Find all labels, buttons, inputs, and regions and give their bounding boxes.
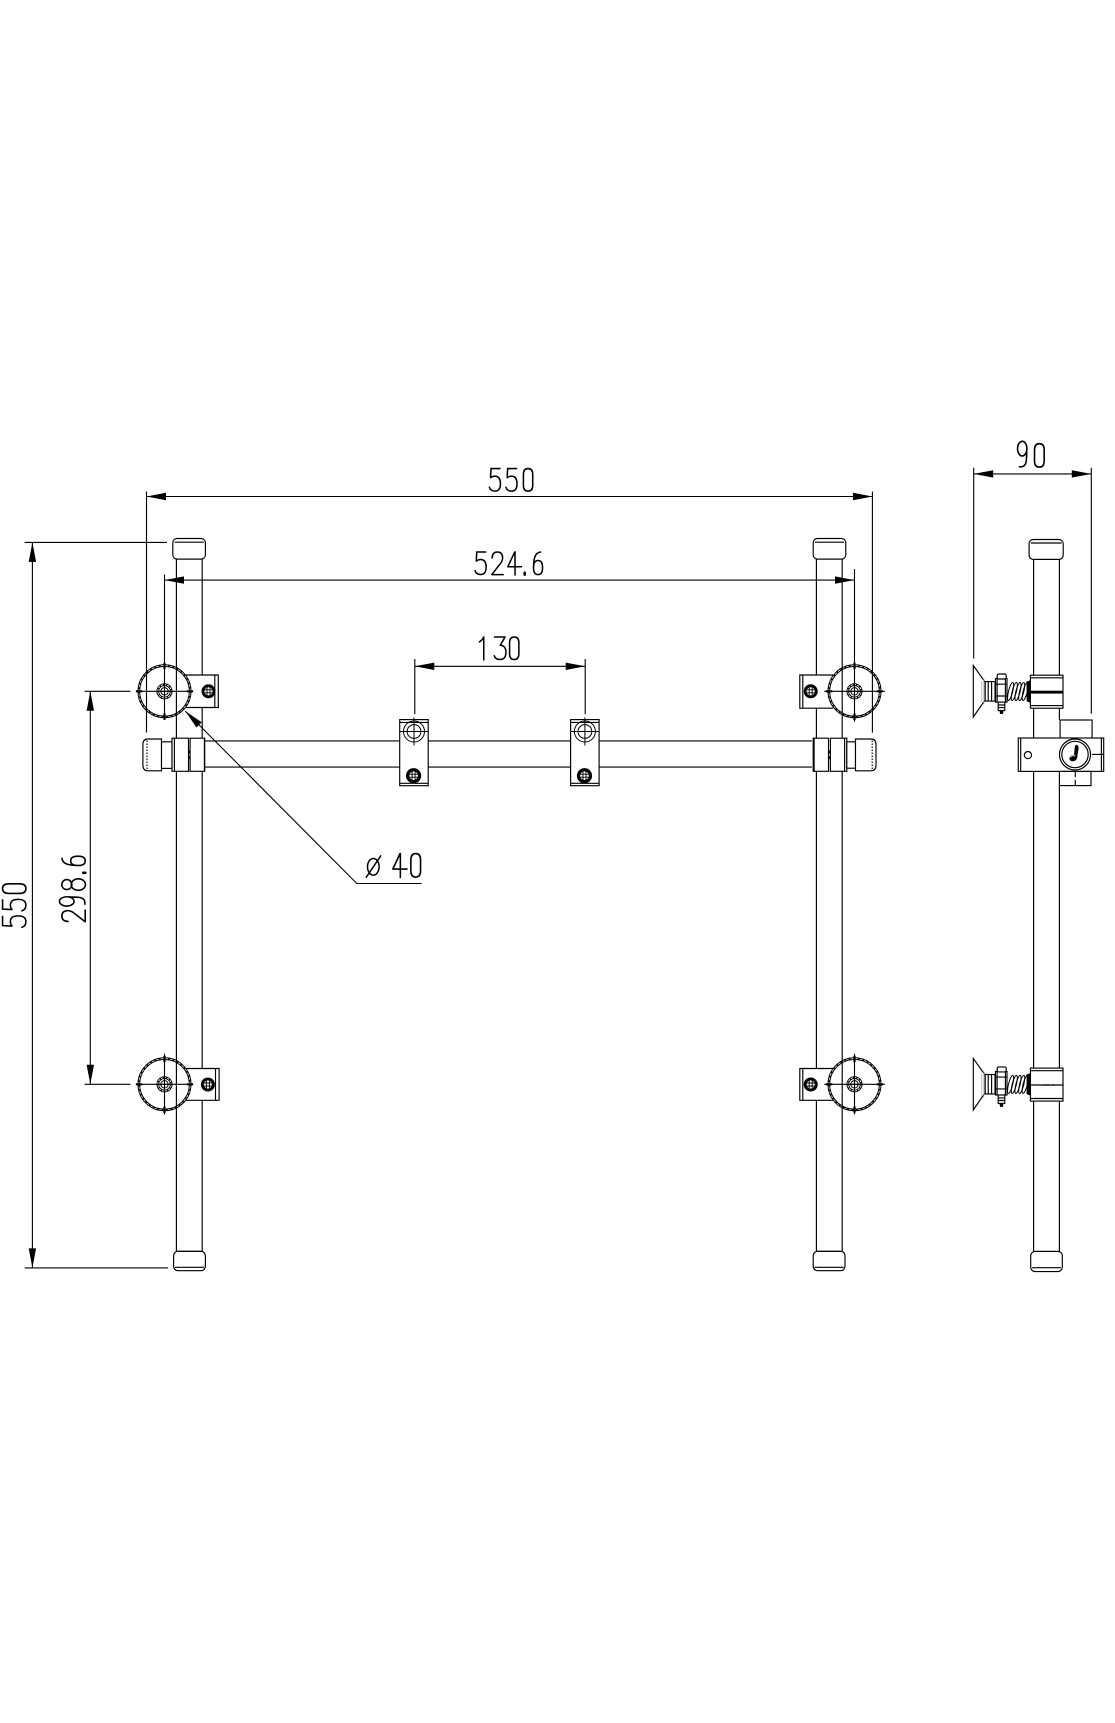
lower-left knob	[136, 1056, 193, 1113]
dimension 298.6: text	[60, 856, 86, 922]
upper-right bracket screw	[804, 684, 818, 698]
clamp block hole	[1024, 752, 1031, 759]
lower-right knob	[826, 1056, 883, 1113]
upper suction cup	[973, 666, 985, 718]
dimension 524.6: arrowheads	[165, 576, 855, 583]
dimension 90: arrowheads	[974, 470, 1092, 477]
leader line for diameter 40	[185, 711, 421, 883]
leader arrowhead	[183, 708, 202, 727]
lower-left bracket screw	[201, 1078, 215, 1092]
dimension 90: dimension line	[974, 473, 1092, 475]
horizontal tube right step	[847, 742, 856, 768]
horizontal tube right end cap	[856, 739, 877, 771]
clamp lever boss	[1060, 739, 1091, 770]
upper-left bracket screw	[202, 684, 216, 698]
upper tube sleeve	[1030, 675, 1063, 708]
upper-left bracket	[186, 675, 218, 708]
dimension 550 top: arrowheads	[147, 493, 873, 500]
horizontal tube left band 2	[190, 738, 205, 771]
upper spring	[1006, 682, 1029, 701]
dimension 550 left vertical: text	[3, 884, 26, 928]
dimension 130: text	[479, 637, 518, 660]
dimension 550 top: text	[489, 469, 532, 492]
clamp B top screw	[571, 718, 599, 746]
right tube top cap	[813, 539, 846, 560]
dimension 550 left vertical: extension lines	[25, 542, 168, 1268]
left tube bottom cap	[174, 1251, 206, 1270]
upper-left knob	[136, 663, 193, 720]
lower tube sleeve	[1030, 1068, 1063, 1101]
horizontal tube left band 1	[172, 738, 189, 771]
upper-left centerlines	[85, 575, 193, 720]
dimension 130: dimension line	[415, 665, 585, 667]
leader text 40	[393, 854, 421, 878]
dimension 130: extension lines	[415, 659, 585, 714]
tube clamp A	[400, 720, 429, 786]
horizontal tube left step	[162, 742, 173, 769]
dimension 130: arrowheads	[415, 663, 585, 670]
side view tube bottom cap	[1031, 1251, 1063, 1271]
lower-right bracket	[800, 1069, 833, 1101]
diameter symbol	[366, 856, 381, 877]
clamp block slot	[1092, 753, 1104, 755]
clamp A bottom screw	[406, 768, 421, 783]
dimension 550 left vertical: dimension line	[31, 542, 33, 1268]
right band joint line	[828, 751, 830, 760]
horizontal tube left end cap	[143, 739, 162, 771]
left band joint line	[188, 751, 190, 760]
side view tube body	[1034, 559, 1060, 1251]
tube clamp B	[571, 720, 600, 786]
upper stem washers	[985, 682, 995, 702]
lower-right bracket screw	[804, 1078, 818, 1092]
clamp block upper step	[1060, 720, 1092, 739]
lower cross block	[996, 1067, 1008, 1107]
dimension 550 top: dimension line	[147, 496, 873, 498]
left vertical tube body	[176, 559, 202, 1251]
lower spring	[1006, 1075, 1029, 1094]
dimension 90: extension lines	[974, 468, 1092, 714]
lower spring seat disc	[1027, 1073, 1031, 1096]
upper-right knob	[826, 663, 883, 720]
clamp block lower step	[1059, 771, 1091, 785]
right vertical tube body	[816, 559, 842, 1251]
clamp A top screw	[400, 718, 428, 746]
lower-right centerlines	[824, 1054, 885, 1115]
upper spring seat disc	[1027, 680, 1031, 703]
lower-left bracket	[185, 1069, 219, 1101]
dimension 524.6: dimension line	[165, 579, 855, 581]
left tube top cap	[173, 539, 206, 560]
clamp block body	[1018, 738, 1103, 771]
clamp lever handle	[1069, 745, 1078, 761]
dimension 298.6: dimension line	[89, 691, 91, 1084]
lower stem washers	[985, 1075, 995, 1095]
dimension 298.6: arrowheads	[87, 691, 94, 1084]
dimension 90: text	[1018, 441, 1045, 467]
horizontal tube right band 1	[813, 738, 828, 771]
dimension 550 top: extension lines	[147, 492, 873, 733]
dimension 550 left vertical: arrowheads	[29, 542, 36, 1268]
horizontal tube right band 2	[830, 738, 846, 771]
upper cross block	[996, 674, 1008, 714]
side view tube top cap	[1029, 540, 1063, 560]
clamp B bottom screw	[577, 768, 592, 783]
dimension 524.6: text	[475, 552, 543, 575]
horizontal tube body	[205, 741, 812, 767]
right tube bottom cap	[813, 1251, 845, 1270]
lower-left centerlines	[85, 1054, 193, 1115]
upper-right bracket	[800, 675, 833, 708]
lower suction cup	[973, 1058, 985, 1110]
upper-right centerlines	[824, 569, 885, 722]
